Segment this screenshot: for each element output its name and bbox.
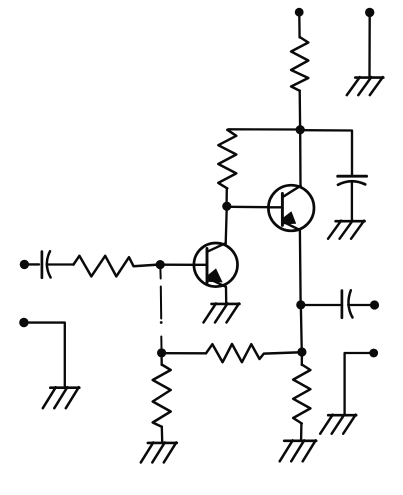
wire (bias run, broken in scan) [160, 269, 163, 348]
wire [226, 209, 227, 244]
terminal dot (output) [370, 300, 379, 309]
wire [28, 263, 39, 265]
wire [368, 15, 371, 77]
terminal dot (V+ supply) [295, 8, 304, 17]
terminal dot (chassis) [365, 8, 374, 17]
transistor Q2 [268, 185, 314, 231]
wire [299, 91, 302, 127]
wire [225, 188, 228, 203]
terminal dot (input) [20, 260, 29, 269]
wire [345, 353, 370, 414]
wire [225, 287, 228, 304]
wire [230, 206, 269, 209]
wire [301, 355, 303, 365]
wire [299, 230, 302, 301]
ground [347, 77, 384, 95]
node A junction dot [296, 125, 305, 134]
resistor R4 [153, 365, 171, 427]
wire [161, 427, 164, 442]
wire [304, 304, 342, 306]
wire [228, 128, 297, 131]
resistor R6 [293, 365, 310, 424]
terminal dot [369, 349, 378, 358]
ground [43, 387, 80, 408]
resistor R5 [206, 344, 298, 362]
capacitor C3 [342, 290, 371, 318]
wire [298, 15, 301, 38]
wire [28, 323, 65, 387]
node F junction dot [297, 347, 306, 356]
resistor R2 [218, 130, 236, 189]
wire [164, 264, 194, 266]
terminal dot [19, 318, 28, 327]
capacitor C2 [338, 176, 367, 220]
wire [299, 132, 302, 187]
ground [204, 303, 240, 322]
node C junction dot [156, 260, 165, 269]
wire [300, 308, 303, 348]
resistor R1 [291, 37, 308, 91]
wire [160, 356, 162, 365]
node B junction dot [222, 202, 231, 211]
ground [280, 440, 317, 461]
wire [300, 423, 303, 439]
node D junction dot [157, 348, 166, 357]
node E junction dot [296, 300, 305, 309]
capacitor C1 [42, 251, 74, 277]
ground [141, 442, 177, 462]
wire [303, 130, 352, 175]
transistor Q1 [194, 243, 238, 287]
resistor R3 [74, 256, 157, 277]
ground [320, 415, 356, 434]
wire [165, 352, 206, 354]
ground [328, 221, 365, 239]
